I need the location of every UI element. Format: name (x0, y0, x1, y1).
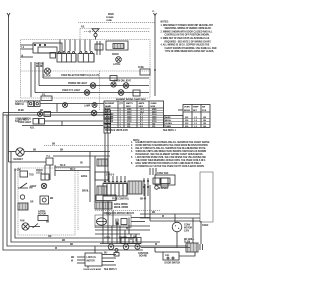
svg-text:IN DIAGRAM - SEE THE ELEMENT R: IN DIAGRAM - SEE THE ELEMENT RATING CHAR… (136, 153, 204, 156)
wire verticals to lock motors (103, 196, 136, 244)
svg-text:BR: BR (50, 198, 54, 200)
svg-text:TYPE OF WIRE WHEN REPLACING AN: TYPE OF WIRE WHEN REPLACING ANY LEADS. (165, 50, 215, 53)
svg-text:BAKE 2585W: BAKE 2585W (114, 203, 128, 206)
wire row selector out (43, 77, 149, 79)
label door latch switch (15, 101, 30, 107)
switch S4 door latch (28, 101, 40, 107)
wire door switch left (155, 248, 163, 253)
svg-text:BK: BK (52, 144, 56, 146)
svg-text:P.S.: P.S. (81, 26, 85, 28)
table element rating chart (104, 98, 164, 128)
wire row 230 (95, 228, 150, 230)
lamp DS2 oven on (123, 83, 129, 89)
wire drops center-left (45, 165, 55, 180)
svg-text:FAN: FAN (20, 220, 25, 223)
wire motor top bus (100, 243, 141, 245)
door switch S10 (163, 252, 181, 265)
wires lock module right (102, 253, 116, 265)
svg-text:MAGNET: MAGNET (14, 158, 24, 161)
svg-text:N.O.: N.O. (30, 127, 35, 129)
label element leads (114, 203, 129, 209)
label element mid (82, 191, 89, 193)
svg-text:3. WIRE NUT IS USED ON PLUG-IN: 3. WIRE NUT IS USED ON PLUG-IN MODELS AS (161, 37, 210, 40)
svg-text:TOD: TOD (29, 175, 34, 177)
svg-text:SEE NOTE 5: SEE NOTE 5 (104, 269, 117, 271)
lamp DS7a latch (63, 103, 68, 108)
aux box (161, 178, 168, 187)
svg-text:BAKE: BAKE (165, 116, 171, 119)
resistor block R1 (133, 90, 140, 96)
svg-text:ELEMENT: ELEMENT (105, 103, 115, 105)
lamp DS5 oven light (38, 112, 43, 117)
svg-text:TOD: TOD (106, 214, 111, 216)
svg-text:HIGH TEMP PROTECTOR OPENS AT 2: HIGH TEMP PROTECTOR OPENS AT 290 F AND R… (136, 162, 202, 165)
svg-text:G: G (89, 32, 91, 34)
wire door switch right (179, 252, 195, 256)
lamp DS4 clean (84, 90, 90, 96)
svg-text:POWER: POWER (106, 17, 114, 19)
label door lock relay (36, 170, 43, 175)
svg-text:TEMP: TEMP (193, 107, 199, 109)
svg-text:LOCK MOTOR RUNS UNTIL THE CAM: LOCK MOTOR RUNS UNTIL THE CAM OPENS THE … (136, 156, 207, 159)
svg-text:BK-W: BK-W (140, 199, 147, 201)
svg-text:BK: BK (70, 244, 74, 246)
svg-text:1. DISCONNECT POWER FROM UNIT: 1. DISCONNECT POWER FROM UNIT BEFORE ANY (161, 24, 214, 27)
svg-text:LATCH: LATCH (38, 210, 46, 213)
wire neutral to magnet (9, 151, 16, 153)
hatched relay block (128, 181, 142, 194)
svg-text:CONV FAN: CONV FAN (157, 172, 169, 175)
magnet coil M2 (14, 148, 25, 161)
label fuse control (112, 199, 147, 201)
lamp DS7 oven lamp (84, 103, 97, 108)
node N terminal (7, 13, 10, 17)
svg-text:A.B.: A.B. (165, 254, 170, 257)
svg-text:LIGHT: LIGHT (30, 186, 37, 188)
svg-text:CONV: CONV (105, 126, 111, 128)
wire sensor lead lower (131, 221, 145, 223)
svg-text:NOM: NOM (151, 106, 156, 108)
svg-text:ELEMENT RATING CHART 240V: ELEMENT RATING CHART 240V (116, 98, 146, 101)
svg-text:BK: BK (62, 240, 66, 242)
terminal block TB1 (50, 53, 56, 59)
lamp DS8 lower (30, 183, 47, 188)
oven sensor assembly (95, 214, 131, 228)
terminal strip TS1 (41, 95, 52, 101)
svg-text:SWITCH: SWITCH (15, 104, 24, 106)
terminal lower (20, 195, 24, 199)
svg-text:BROIL: BROIL (165, 120, 172, 122)
svg-text:NAME: NAME (105, 105, 111, 108)
wires lock module left (71, 257, 85, 263)
control box cluster left (33, 43, 62, 53)
label main power cord (106, 13, 114, 22)
svg-text:120V: 120V (184, 231, 190, 233)
wire left riser C (11, 152, 160, 242)
latch switch comb (121, 238, 141, 244)
lamp DS0 console (112, 54, 121, 66)
wire long dashed mid (44, 144, 130, 146)
dotted pair connector (143, 178, 148, 196)
svg-text:HI-SPEED: HI-SPEED (158, 188, 169, 190)
svg-text:SEE NOTE 1: SEE NOTE 1 (163, 130, 176, 132)
svg-text:POWER ON LIGHT: POWER ON LIGHT (68, 83, 88, 85)
flat terminal box (96, 195, 116, 201)
svg-text:LAMP: LAMP (84, 105, 91, 108)
wire dashed console divider right (99, 71, 101, 110)
svg-text:BK: BK (60, 149, 64, 151)
svg-text:2. WIRING SHOWN WITH DOOR CLOS: 2. WIRING SHOWN WITH DOOR CLOSED AND ALL (161, 30, 213, 33)
fan motor M3 (20, 220, 29, 231)
svg-text:OR: OR (30, 202, 34, 204)
label control board (138, 253, 149, 258)
wire left riser A (3, 113, 143, 251)
fuse F1 power entry (80, 26, 150, 39)
svg-text:DOOR SWITCH: DOOR SWITCH (165, 263, 181, 265)
lamp DS1 power on (90, 83, 96, 89)
svg-text:REQUIRED - SEE NOTE 2 OF WIRIN: REQUIRED - SEE NOTE 2 OF WIRING CHART. (165, 40, 212, 43)
svg-text:4. ALL WIRING IS 18 GA. COPPER: 4. ALL WIRING IS 18 GA. COPPER UNLESS TH… (161, 44, 210, 47)
oven enclosure box (200, 172, 213, 222)
wire row 234 (95, 233, 140, 235)
element box upper (81, 172, 109, 180)
svg-text:SW: SW (202, 107, 205, 109)
door lock module A1 (85, 253, 102, 266)
wire row cycling (35, 92, 149, 94)
svg-text:BK: BK (152, 212, 156, 214)
svg-text:CLOCK: CLOCK (43, 75, 51, 77)
fuse cluster console right (138, 67, 150, 75)
console bottom dashed stub (20, 100, 52, 102)
junction dot L1 (154, 69, 156, 71)
heating element E1 (186, 243, 198, 252)
wire left riser B (7, 115, 188, 246)
svg-text:MOTOR: MOTOR (119, 238, 127, 240)
svg-text:SURFACE UNITS ARE WIRED THRU I: SURFACE UNITS ARE WIRED THRU INFINITE SW… (136, 150, 207, 153)
svg-text:1 2 3 4 5 6: 1 2 3 4 5 6 (104, 174, 115, 177)
svg-text:240V: 240V (139, 105, 144, 108)
wire supply dashed lower (84, 31, 150, 33)
lock motor M4 (108, 244, 114, 250)
wire magnet lead (24, 149, 110, 151)
wire sensor lead upper (131, 217, 150, 219)
lower dashed enclosure (18, 168, 75, 235)
svg-text:OVEN SELECTOR SWITCH (1-2-3-4-: OVEN SELECTOR SWITCH (1-2-3-4-5) (61, 74, 99, 77)
ballast box oven light (44, 112, 51, 117)
wire dashed row (95, 210, 160, 212)
svg-text:OHMS: OHMS (151, 103, 158, 105)
lock motor M5 (123, 244, 129, 250)
svg-text:DOOR LOCK ASSY: DOOR LOCK ASSY (84, 268, 102, 271)
wire risers to conv fan (145, 168, 156, 221)
svg-text:HI-LIM: HI-LIM (14, 170, 21, 172)
connector J2 tall (104, 110, 111, 133)
wire selector drops (31, 62, 43, 97)
svg-text:DOOR: DOOR (112, 54, 119, 56)
svg-text:LOCK UL: LOCK UL (87, 257, 97, 259)
wire lock module bottom (84, 266, 118, 271)
wire row power-on (39, 85, 149, 87)
svg-text:MAIN: MAIN (108, 13, 114, 16)
svg-text:CHART SHOWS OTHERWISE. USE SAM: CHART SHOWS OTHERWISE. USE SAME GA. AND (165, 47, 217, 50)
svg-text:SERVICING. WIRING IS VIEWED FR: SERVICING. WIRING IS VIEWED FROM REAR. (165, 27, 212, 30)
label broil grill (184, 239, 195, 244)
lock motor M5b (135, 244, 140, 249)
svg-text:LATCH: LATCH (113, 63, 121, 66)
svg-text:W-BK: W-BK (18, 110, 24, 112)
console divider dashed (21, 70, 151, 72)
wire middle risers (90, 133, 108, 202)
convection motor M6 (172, 222, 192, 232)
switch bank S1 oven selector (57, 51, 76, 62)
svg-text:SU-L: SU-L (70, 169, 76, 171)
wire rect bottom (150, 220, 200, 222)
node L1 terminal (152, 11, 157, 16)
connector J3 (114, 249, 119, 257)
svg-text:BROIL: BROIL (82, 191, 89, 193)
wire supply dashed upper (78, 22, 155, 24)
wire row 218 (140, 216, 200, 218)
thermal fuse box (41, 174, 49, 180)
svg-text:BK: BK (33, 149, 37, 151)
control box cluster right (106, 41, 128, 50)
svg-text:SU-R: SU-R (60, 165, 66, 167)
wire lock module top (94, 246, 96, 253)
lamp DS6 rear (91, 110, 97, 116)
svg-text:CORD: CORD (106, 20, 112, 22)
wire neutral vertical (8, 16, 10, 163)
dashed divider lower box (77, 170, 79, 230)
switch S7 fan (29, 222, 49, 229)
label oven light (18, 119, 32, 124)
svg-text:BROIL 3400W: BROIL 3400W (114, 206, 129, 209)
wire SU row upper (55, 165, 90, 167)
wire drops to selector (60, 40, 90, 52)
svg-text:THE DOOR THEN REMAINS LOCKED U: THE DOOR THEN REMAINS LOCKED UNTIL THE O… (136, 159, 206, 162)
terminal dots (34, 44, 45, 45)
svg-text:BOARD: BOARD (139, 255, 147, 258)
wire bottom bus right (141, 247, 190, 249)
svg-text:BK: BK (46, 222, 50, 224)
hatched connector P5 (95, 202, 112, 209)
label bottom cluster (38, 210, 48, 221)
notes list top-right (161, 22, 217, 54)
hatched connector P2 (113, 44, 124, 49)
svg-text:OVEN: OVEN (184, 107, 190, 109)
terminal block magnet P-2 (46, 156, 53, 165)
svg-text:BAKE: BAKE (81, 175, 88, 178)
svg-text:CLEAN: CLEAN (165, 122, 172, 125)
table thermostat chart (164, 105, 210, 128)
svg-text:NOTES:: NOTES: (161, 22, 169, 24)
svg-text:CONV: CONV (184, 225, 191, 227)
svg-text:AMPS: AMPS (139, 102, 145, 105)
wire neutral elbow (9, 161, 47, 163)
wire latch to bus (40, 104, 104, 112)
hatched connector P4 (18, 203, 28, 210)
switch S5 oven light (22, 119, 103, 130)
svg-text:MODE: MODE (184, 110, 191, 112)
svg-text:QTY: QTY (119, 103, 124, 105)
notes list middle (131, 141, 210, 168)
element hatched upper (97, 159, 108, 166)
svg-text:BK: BK (116, 224, 120, 226)
wire lamp bus pair (3, 110, 107, 115)
console dashed enclosure (21, 40, 151, 99)
svg-text:240V: 240V (126, 105, 131, 108)
svg-text:CONTROLS IN THE OFF POSITION S: CONTROLS IN THE OFF POSITION SHOWN. (165, 35, 210, 37)
label console left (22, 47, 25, 58)
svg-text:SURFACE UNITS 240V: SURFACE UNITS 240V (105, 129, 128, 132)
svg-text:POS: POS (202, 110, 207, 112)
relay K2 (30, 196, 54, 204)
label broil element (80, 163, 83, 165)
element hatched mid (97, 186, 107, 195)
label motors (104, 237, 137, 240)
svg-text:LOCK: LOCK (104, 238, 111, 240)
svg-text:N.O.: N.O. (15, 121, 20, 123)
svg-text:BR-RR: BR-RR (36, 66, 43, 68)
svg-text:DOOR SWITCH IS SHOWN WITH THE: DOOR SWITCH IS SHOWN WITH THE OVEN DOOR … (136, 145, 208, 147)
pilot box (153, 178, 160, 189)
terminal pair element (200, 244, 203, 250)
svg-text:OVEN CYC LIGHT: OVEN CYC LIGHT (62, 90, 81, 92)
wire L1 vertical (154, 16, 156, 97)
wire row 156 (53, 155, 110, 157)
clock motor M1 (43, 68, 51, 77)
svg-text:AUTOMATICALLY AFTER THE OVEN C: AUTOMATICALLY AFTER THE OVEN CAVITY COOL… (136, 165, 205, 168)
label oven light switch (15, 119, 31, 124)
svg-text:MOTOR: MOTOR (87, 261, 95, 263)
svg-text:OR: OR (48, 236, 52, 238)
svg-text:WATTS: WATTS (126, 102, 133, 105)
svg-text:DOOR LATCH: DOOR LATCH (15, 101, 30, 104)
conv fan box (155, 172, 175, 190)
svg-text:SU: SU (80, 163, 83, 165)
indicator box row1 (110, 76, 117, 88)
wire stubs console left (21, 45, 34, 57)
label infinite switch (36, 64, 44, 69)
lamp DS4b lock (118, 90, 124, 96)
wire motor feeds (112, 214, 201, 248)
wire SU row lower (55, 169, 90, 171)
switch bank S8 lower (103, 181, 127, 196)
svg-text:OVEN LIGHT: OVEN LIGHT (18, 122, 32, 124)
svg-text:ELEMENT WATTAGE RATINGS ARE AL: ELEMENT WATTAGE RATINGS ARE ALL SHOWN IN… (136, 141, 211, 144)
wire pair console right (95, 41, 103, 55)
hi-limit box (14, 170, 34, 178)
svg-text:RELAY CONTACTS ARE ALL SHOWN I: RELAY CONTACTS ARE ALL SHOWN IN THE DE-E… (136, 147, 207, 150)
wire left riser D (15, 170, 135, 238)
svg-text:MOTOR: MOTOR (184, 228, 192, 230)
svg-text:BU: BU (104, 253, 108, 255)
svg-text:OVEN: OVEN (202, 225, 209, 227)
wire row 226 (95, 224, 150, 226)
svg-text:BK: BK (71, 257, 75, 259)
wire row 214 (140, 212, 200, 214)
wire feeds bank S8 (104, 174, 125, 183)
svg-text:TIMED: TIMED (165, 126, 172, 128)
switch S6 lower (18, 183, 33, 190)
switch bank S2 oven selector (78, 51, 94, 62)
